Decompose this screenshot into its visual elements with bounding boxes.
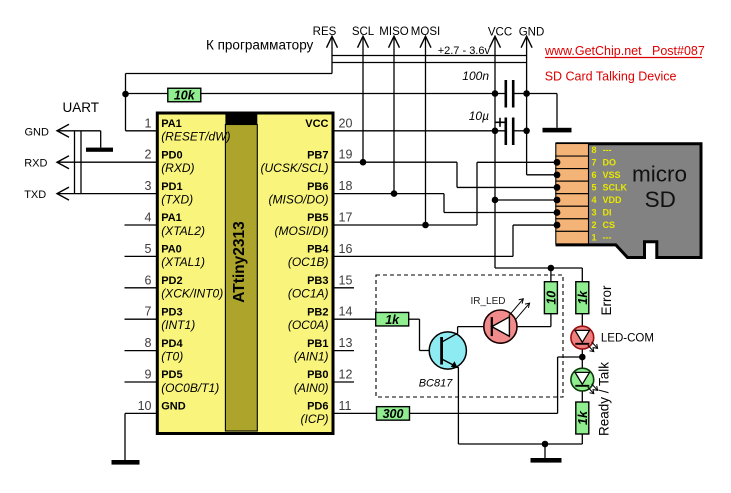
svg-text:---: --- [603, 233, 612, 243]
svg-text:PA1: PA1 [161, 212, 182, 224]
svg-text:GND: GND [519, 27, 545, 39]
svg-text:IR_LED: IR_LED [471, 296, 506, 307]
svg-text:RES: RES [313, 26, 337, 38]
svg-text:SD Card Talking Device: SD Card Talking Device [545, 70, 677, 84]
svg-text:+2.7 - 3.6v: +2.7 - 3.6v [438, 45, 491, 57]
svg-text:(OC0A): (OC0A) [288, 318, 329, 332]
svg-text:(AIN0): (AIN0) [294, 381, 329, 395]
svg-text:10µ: 10µ [469, 109, 489, 123]
svg-text:300: 300 [383, 407, 404, 421]
svg-text:SCL: SCL [352, 26, 375, 38]
svg-text:PB2: PB2 [307, 306, 328, 318]
svg-text:SD: SD [645, 187, 676, 212]
svg-text:5: 5 [145, 242, 152, 256]
svg-text:PD4: PD4 [161, 338, 183, 350]
svg-text:(RXD): (RXD) [161, 161, 194, 175]
svg-text:GND: GND [161, 401, 186, 413]
svg-text:PD5: PD5 [161, 369, 182, 381]
svg-text:1k: 1k [576, 410, 590, 425]
svg-text:PD1: PD1 [161, 181, 182, 193]
svg-text:К программатору: К программатору [206, 38, 314, 53]
svg-text:14: 14 [339, 305, 353, 319]
svg-text:PD6: PD6 [307, 401, 328, 413]
svg-text:ATtiny2313: ATtiny2313 [231, 221, 248, 303]
svg-text:PD3: PD3 [161, 306, 182, 318]
svg-text:PD2: PD2 [161, 275, 182, 287]
svg-text:20: 20 [339, 116, 353, 130]
svg-text:PB3: PB3 [307, 275, 328, 287]
svg-text:2: 2 [145, 148, 152, 162]
svg-text:PB1: PB1 [307, 338, 328, 350]
svg-text:3: 3 [592, 208, 597, 218]
svg-text:VCC: VCC [488, 27, 512, 39]
svg-text:TXD: TXD [24, 189, 46, 201]
svg-text:(MOSI/DI): (MOSI/DI) [275, 224, 329, 238]
svg-text:10: 10 [545, 291, 559, 305]
svg-text:(XCK/INT0): (XCK/INT0) [161, 287, 223, 301]
svg-text:(OC0B/T1): (OC0B/T1) [161, 381, 219, 395]
svg-text:PB7: PB7 [307, 149, 328, 161]
svg-text:PB0: PB0 [307, 369, 328, 381]
svg-text:PB6: PB6 [307, 181, 328, 193]
svg-text:8: 8 [592, 145, 597, 155]
svg-text:2: 2 [592, 220, 597, 230]
svg-text:PD0: PD0 [161, 149, 182, 161]
svg-text:PB4: PB4 [307, 244, 329, 256]
svg-text:SCLK: SCLK [603, 182, 628, 192]
svg-text:1k: 1k [385, 313, 400, 327]
svg-text:UART: UART [63, 100, 100, 115]
svg-text:100n: 100n [462, 69, 489, 83]
svg-text:5: 5 [592, 182, 597, 192]
svg-text:18: 18 [339, 179, 353, 193]
svg-text:12: 12 [339, 368, 353, 382]
svg-text:(T0): (T0) [161, 349, 183, 363]
svg-text:Error: Error [599, 285, 614, 316]
svg-text:6: 6 [592, 170, 597, 180]
svg-text:10: 10 [138, 399, 152, 413]
svg-text:(OC1B): (OC1B) [288, 255, 329, 269]
svg-text:4: 4 [145, 211, 152, 225]
svg-text:Ready / Talk: Ready / Talk [597, 362, 612, 436]
svg-text:BC817: BC817 [419, 378, 454, 390]
svg-text:LED-COM: LED-COM [601, 333, 654, 345]
svg-text:4: 4 [592, 195, 597, 205]
svg-text:10k: 10k [174, 89, 196, 103]
svg-text:8: 8 [145, 336, 152, 350]
svg-text:DO: DO [603, 157, 617, 167]
svg-text:(INT1): (INT1) [161, 318, 195, 332]
svg-text:(OC1A): (OC1A) [288, 287, 329, 301]
svg-text:(MISO/DO): (MISO/DO) [269, 192, 329, 206]
svg-text:9: 9 [145, 368, 152, 382]
svg-text:1: 1 [145, 116, 152, 130]
svg-text:1: 1 [592, 233, 597, 243]
svg-text:19: 19 [339, 148, 353, 162]
svg-text:(ICP): (ICP) [301, 412, 329, 426]
svg-text:(RESET/dW): (RESET/dW) [161, 130, 230, 144]
svg-text:DI: DI [603, 208, 612, 218]
svg-text:(XTAL1): (XTAL1) [161, 255, 205, 269]
svg-text:VCC: VCC [305, 118, 328, 130]
svg-text:CS: CS [603, 220, 616, 230]
svg-text:1k: 1k [576, 290, 590, 305]
svg-text:PA0: PA0 [161, 244, 182, 256]
svg-text:(UCSK/SCL): (UCSK/SCL) [260, 161, 328, 175]
svg-text:MOSI: MOSI [411, 26, 440, 38]
svg-text:(XTAL2): (XTAL2) [161, 224, 205, 238]
svg-text:---: --- [603, 145, 612, 155]
svg-text:(TXD): (TXD) [161, 192, 193, 206]
svg-text:6: 6 [145, 273, 152, 287]
svg-text:www.GetChip.net Post#087: www.GetChip.net Post#087 [544, 44, 705, 58]
svg-text:3: 3 [145, 179, 152, 193]
svg-text:7: 7 [592, 157, 597, 167]
svg-text:RXD: RXD [24, 158, 47, 170]
svg-text:13: 13 [339, 336, 353, 350]
svg-text:PA1: PA1 [161, 118, 182, 130]
svg-text:16: 16 [339, 242, 353, 256]
svg-text:7: 7 [145, 305, 152, 319]
svg-text:PB5: PB5 [307, 212, 328, 224]
svg-text:(AIN1): (AIN1) [294, 349, 329, 363]
svg-text:VSS: VSS [603, 170, 621, 180]
svg-text:MISO: MISO [379, 26, 408, 38]
svg-text:VDD: VDD [603, 195, 623, 205]
svg-text:15: 15 [339, 273, 353, 287]
svg-text:micro: micro [632, 162, 687, 187]
svg-text:GND: GND [25, 126, 50, 138]
svg-text:11: 11 [339, 399, 352, 413]
svg-text:17: 17 [339, 211, 353, 225]
